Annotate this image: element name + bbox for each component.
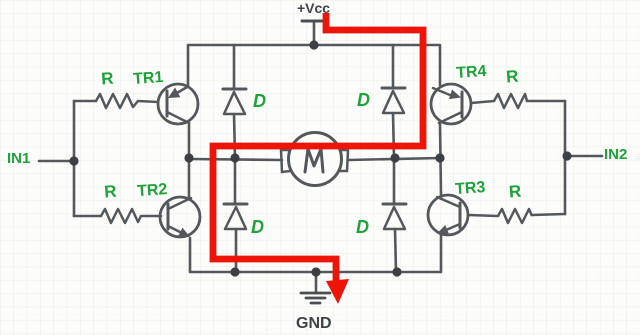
transistor TR3 — [428, 195, 468, 235]
wire bottom rail with TR2 emitter and TR3 emitter — [190, 235, 441, 272]
node Vcc junction — [309, 40, 318, 49]
wire D2 bottom — [393, 113, 394, 158]
resistor R4 — [498, 209, 532, 223]
wire D2 top — [392, 45, 395, 88]
wire D1 top — [233, 45, 236, 89]
svg-text:TR4: TR4 — [456, 63, 487, 82]
transistor TR4 — [431, 84, 471, 124]
svg-text:D: D — [251, 217, 264, 237]
node bottom right junction — [392, 267, 401, 276]
node right mid junction — [435, 153, 444, 162]
svg-text:TR1: TR1 — [133, 69, 164, 88]
wire top rail with TR1 emitter and TR4 emitter — [188, 45, 440, 87]
wire left mid vertical TR1 collector to TR2 collector — [188, 123, 191, 198]
svg-text:IN1: IN1 — [7, 150, 30, 167]
svg-text:R: R — [505, 67, 519, 87]
motor M — [281, 133, 348, 186]
diode D2 — [382, 88, 405, 113]
wire IN2 vertical — [564, 101, 567, 214]
wire D3 bottom — [235, 229, 238, 272]
node D2/D4 mid junction — [390, 153, 399, 162]
wire D4 top — [393, 158, 396, 204]
wire D1 bottom — [234, 114, 235, 158]
diode D4 — [383, 204, 406, 229]
transistor TR1 — [158, 84, 198, 124]
wire mid rail left to motor — [189, 159, 282, 160]
wire D3 top — [234, 158, 237, 204]
svg-text:R: R — [101, 69, 115, 89]
wire R3 to IN2 vertical — [527, 100, 565, 103]
resistor R1 — [96, 94, 138, 108]
wire D4 bottom — [395, 229, 396, 272]
power bar +Vcc — [302, 20, 326, 23]
ground symbol — [301, 293, 330, 303]
wire mid rail motor to right — [348, 158, 440, 160]
transistor TR2 — [160, 197, 200, 237]
node IN2 junction — [562, 151, 571, 160]
svg-text:D: D — [356, 217, 369, 237]
wire IN1 vertical — [73, 101, 76, 216]
svg-text:R: R — [104, 182, 118, 202]
resistor R2 — [101, 209, 141, 223]
node GND junction — [311, 267, 320, 276]
wire R4 to IN2 vertical — [532, 214, 565, 215]
wire TR2 base row — [74, 215, 101, 218]
node IN1 junction — [69, 156, 78, 165]
diode D1 — [223, 89, 246, 114]
wire right mid vertical TR4 collector to TR3 collector — [440, 123, 441, 195]
wire TR3 base to R4 — [468, 215, 498, 216]
svg-text:+Vcc: +Vcc — [297, 0, 330, 16]
node D1/D3 mid junction — [230, 153, 239, 162]
wire IN2 — [566, 155, 602, 158]
wire GND stem — [315, 272, 318, 293]
resistor R3 — [494, 94, 527, 108]
svg-text:D: D — [357, 90, 370, 110]
diode D3 — [224, 204, 247, 229]
svg-text:IN2: IN2 — [604, 146, 627, 163]
wire R2 to TR2 base — [141, 215, 161, 218]
red current path — [213, 13, 423, 282]
wire TR4 base to R3 — [471, 101, 494, 103]
svg-text:TR3: TR3 — [455, 179, 486, 198]
svg-text:GND: GND — [296, 315, 332, 332]
red arrowhead — [326, 279, 349, 304]
svg-text:R: R — [508, 182, 522, 202]
wire R1 to TR1 base — [138, 101, 158, 102]
wire TR1 base row — [74, 100, 96, 103]
wire IN1 — [39, 160, 74, 163]
node left mid junction — [184, 153, 193, 162]
wire +Vcc stem — [313, 22, 316, 45]
node bottom left junction — [230, 267, 239, 276]
svg-text:D: D — [253, 91, 266, 111]
svg-text:TR2: TR2 — [137, 181, 168, 200]
